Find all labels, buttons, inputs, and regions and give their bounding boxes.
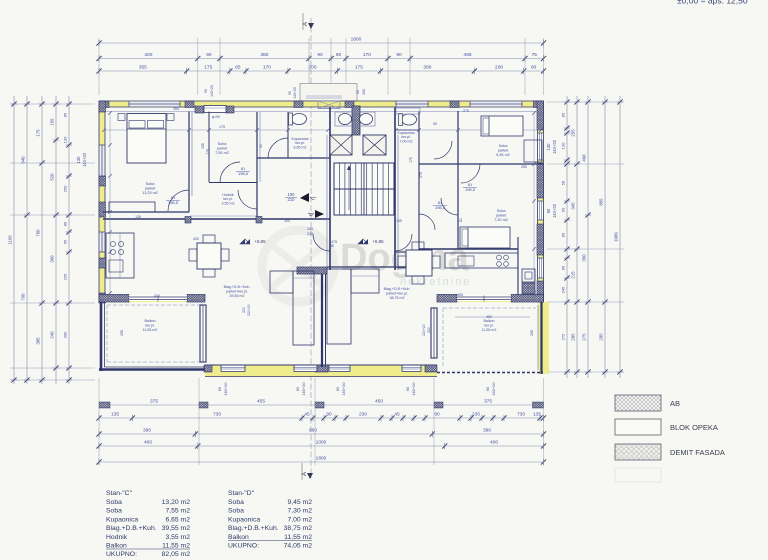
svg-text:Soba: Soba xyxy=(499,144,509,148)
svg-text:198,5: 198,5 xyxy=(465,187,476,192)
bottom wall yellow band xyxy=(205,365,437,377)
svg-text:UKUPNO:: UKUPNO: xyxy=(106,551,137,558)
svg-text:7,30 m2: 7,30 m2 xyxy=(494,218,508,222)
stairwell right wall xyxy=(394,108,396,271)
svg-text:Soba: Soba xyxy=(497,209,507,213)
svg-text:360: 360 xyxy=(50,255,55,263)
svg-text:730: 730 xyxy=(517,412,525,418)
wall C2 right xyxy=(256,112,258,223)
balcony sliding doors top walls xyxy=(129,295,187,301)
svg-text:"C": "C" xyxy=(310,196,317,201)
left wall windows xyxy=(100,145,105,176)
left wall edge lines xyxy=(98,101,100,303)
bottom dimension row1 with wall marks xyxy=(99,404,544,406)
svg-text:+5,95: +5,95 xyxy=(372,239,384,244)
door arc D bed2 xyxy=(441,198,458,215)
right dimension lines xyxy=(566,96,568,378)
wall D bath bottom xyxy=(395,129,419,131)
svg-text:215: 215 xyxy=(571,271,576,279)
svg-text:135: 135 xyxy=(533,412,541,418)
svg-text:160+20: 160+20 xyxy=(491,382,496,396)
svg-text:90: 90 xyxy=(317,52,323,58)
svg-text:475: 475 xyxy=(331,240,337,244)
interior dim chain horizontal C xyxy=(104,129,328,131)
wall D bed2 bottom xyxy=(419,248,518,250)
svg-text:295: 295 xyxy=(530,330,534,336)
balcony right parapet xyxy=(540,302,542,374)
wall bedroomC right xyxy=(188,112,190,213)
svg-text:135: 135 xyxy=(111,412,119,418)
svg-text:175: 175 xyxy=(36,129,41,137)
entry door D xyxy=(395,234,412,251)
window bay room C2 xyxy=(204,106,226,113)
svg-text:790: 790 xyxy=(21,293,26,301)
svg-text:275: 275 xyxy=(206,149,210,155)
svg-text:81: 81 xyxy=(459,218,463,222)
svg-text:1800: 1800 xyxy=(316,456,327,462)
wall C separator xyxy=(103,218,330,220)
bed D2 xyxy=(460,227,510,248)
svg-text:ker.pl.: ker.pl. xyxy=(145,323,155,327)
apartment D marker xyxy=(315,210,324,218)
svg-text:200: 200 xyxy=(309,65,317,71)
svg-text:Kupaonica: Kupaonica xyxy=(228,516,260,523)
svg-text:90: 90 xyxy=(259,144,263,148)
left dimension lines xyxy=(13,96,15,384)
svg-text:90: 90 xyxy=(288,91,292,95)
svg-text:39,55 m2: 39,55 m2 xyxy=(230,294,245,298)
svg-text:210: 210 xyxy=(307,232,313,236)
wall D corridor right xyxy=(418,112,420,253)
vent shaft left with X xyxy=(330,135,352,155)
svg-text:7,55 m2: 7,55 m2 xyxy=(165,508,190,515)
sofa D xyxy=(327,269,351,344)
svg-text:Balkon: Balkon xyxy=(228,534,249,541)
svg-text:220+20: 220+20 xyxy=(247,304,251,316)
svg-text:220: 220 xyxy=(427,327,431,333)
svg-text:Blag.+D.B.+Kuh.: Blag.+D.B.+Kuh. xyxy=(106,525,157,532)
toilet D xyxy=(402,114,417,125)
svg-text:90: 90 xyxy=(561,207,566,212)
dark pier between twin sinks xyxy=(352,106,360,135)
svg-text:170: 170 xyxy=(363,52,371,58)
svg-text:90: 90 xyxy=(546,208,551,213)
balcony top walls yellow xyxy=(99,295,205,302)
bottom dimension row4 xyxy=(99,445,544,447)
bottom extension lines xyxy=(98,378,100,465)
right wall edge lines xyxy=(543,101,545,302)
svg-text:100: 100 xyxy=(307,227,313,231)
balcony right inner dashes xyxy=(443,307,536,309)
svg-text:285: 285 xyxy=(599,333,604,341)
svg-text:160+20: 160+20 xyxy=(301,382,306,396)
svg-text:11,55 m2: 11,55 m2 xyxy=(284,534,312,541)
svg-text:Soba: Soba xyxy=(218,142,228,146)
svg-text:UKUPNO:: UKUPNO: xyxy=(228,543,259,550)
bottom dimension row2 xyxy=(99,417,544,419)
svg-text:75: 75 xyxy=(532,52,538,58)
door arc C bath xyxy=(268,138,288,158)
svg-text:230: 230 xyxy=(472,412,480,418)
stairwell bottom hatched wall xyxy=(297,267,327,274)
svg-text:410: 410 xyxy=(154,294,160,298)
svg-text:160+20: 160+20 xyxy=(411,382,416,396)
svg-text:ker.pl.: ker.pl. xyxy=(484,323,494,327)
svg-text:175: 175 xyxy=(409,157,413,163)
wall D corridor bottom xyxy=(395,251,419,253)
wall D bed1 bottom xyxy=(419,163,543,165)
stairwell left wall xyxy=(329,108,331,271)
top wall windows xyxy=(129,102,180,107)
bottom dimension row3 xyxy=(99,433,544,435)
svg-text:160+20: 160+20 xyxy=(341,382,346,396)
svg-text:parket: parket xyxy=(498,149,509,153)
svg-text:38,75 m2: 38,75 m2 xyxy=(390,296,405,300)
svg-text:80: 80 xyxy=(531,65,537,71)
svg-text:450: 450 xyxy=(457,293,463,297)
svg-text:400: 400 xyxy=(490,440,498,446)
svg-text:840: 840 xyxy=(21,156,26,164)
svg-text:±0,00 = aps. 12,50: ±0,00 = aps. 12,50 xyxy=(677,0,748,6)
toilet C xyxy=(292,114,307,125)
svg-text:100: 100 xyxy=(284,219,290,223)
svg-text:455: 455 xyxy=(257,399,265,405)
svg-text:960: 960 xyxy=(309,428,317,434)
svg-text:175: 175 xyxy=(204,65,212,71)
entry door C xyxy=(313,234,330,251)
svg-text:1196: 1196 xyxy=(8,235,13,245)
svg-text:9,45 m2: 9,45 m2 xyxy=(287,499,312,506)
svg-text:175: 175 xyxy=(419,172,423,178)
faint extra legend box xyxy=(615,468,661,482)
svg-text:90: 90 xyxy=(204,89,208,93)
svg-text:Soba: Soba xyxy=(228,499,244,506)
wall C bath bottom xyxy=(257,157,330,159)
kitchen D counter xyxy=(445,253,518,268)
svg-text:465: 465 xyxy=(464,52,472,58)
wall D kitchen east xyxy=(517,237,519,295)
svg-text:45: 45 xyxy=(330,244,334,248)
bottom dimension row5 1800 xyxy=(99,461,544,463)
svg-text:13,25 m2: 13,25 m2 xyxy=(142,191,158,195)
svg-text:80: 80 xyxy=(561,232,566,237)
svg-text:"D": "D" xyxy=(308,212,315,217)
right extension lines xyxy=(547,101,624,103)
bottom wall piers xyxy=(204,365,212,372)
section line A-A xyxy=(310,18,312,478)
svg-text:7,00 m2: 7,00 m2 xyxy=(287,516,312,523)
svg-text:400: 400 xyxy=(144,52,152,58)
svg-text:Stan-"D": Stan-"D" xyxy=(228,490,255,497)
svg-text:520: 520 xyxy=(50,173,55,181)
bed C1 xyxy=(127,114,166,164)
outer wall left yellow band xyxy=(99,101,105,303)
balcony right dim line xyxy=(455,316,530,318)
svg-text:198,5: 198,5 xyxy=(238,171,249,176)
svg-text:φ=90: φ=90 xyxy=(212,115,220,119)
svg-text:275: 275 xyxy=(582,333,587,341)
door arc C2 xyxy=(220,162,240,182)
svg-text:360: 360 xyxy=(260,52,268,58)
interior dim chain vertical D xyxy=(533,113,535,293)
svg-text:9,45 m2: 9,45 m2 xyxy=(496,153,510,157)
svg-text:Blag.+D.B.+Kuh.: Blag.+D.B.+Kuh. xyxy=(228,525,279,532)
svg-text:45: 45 xyxy=(394,412,400,418)
svg-text:245: 245 xyxy=(201,143,205,149)
svg-text:parket+ker.pl.: parket+ker.pl. xyxy=(226,289,248,293)
svg-text:135: 135 xyxy=(135,215,141,219)
svg-text:345: 345 xyxy=(571,202,576,210)
interior dim chain vertical C xyxy=(110,112,293,114)
svg-text:230: 230 xyxy=(359,412,367,418)
svg-text:140+20: 140+20 xyxy=(293,87,297,99)
legend box DEMIT FASADA xyxy=(615,444,661,460)
wall C2 left xyxy=(208,112,210,183)
svg-text:385: 385 xyxy=(36,337,41,345)
svg-text:Soba: Soba xyxy=(106,499,122,506)
svg-text:130: 130 xyxy=(63,136,68,143)
svg-text:140+20: 140+20 xyxy=(82,152,87,167)
svg-text:198,5: 198,5 xyxy=(168,200,179,205)
center party wall xyxy=(321,274,323,367)
pier D kitchen corner xyxy=(522,283,535,294)
svg-text:11,55 m2: 11,55 m2 xyxy=(482,328,497,332)
svg-text:130: 130 xyxy=(561,142,566,149)
svg-text:95: 95 xyxy=(63,239,68,244)
bed D1 xyxy=(481,116,523,136)
top wall inner leaf line xyxy=(104,111,544,113)
svg-text:285: 285 xyxy=(571,333,576,341)
svg-text:11,55 m2: 11,55 m2 xyxy=(162,543,190,550)
wall D rooms left xyxy=(457,111,459,249)
dining table C xyxy=(197,243,221,269)
wardrobe D room top xyxy=(524,140,542,162)
svg-text:345: 345 xyxy=(561,286,566,293)
legend box AB xyxy=(615,395,661,411)
svg-text:100: 100 xyxy=(362,89,366,95)
right balcony outer yellow band xyxy=(539,302,550,374)
kitchen D sink xyxy=(458,256,474,266)
top wall piers xyxy=(99,101,109,108)
svg-text:355: 355 xyxy=(139,65,147,71)
svg-text:AB: AB xyxy=(670,399,680,408)
window bay piers room C2 xyxy=(195,106,204,113)
vent shaft right with X xyxy=(363,135,386,155)
door arc D bath xyxy=(434,141,452,159)
top extension lines xyxy=(98,38,100,95)
level mark C +5,95 xyxy=(240,239,250,244)
svg-text:275: 275 xyxy=(463,109,469,113)
svg-text:390: 390 xyxy=(143,428,151,434)
svg-text:13,20 m2: 13,20 m2 xyxy=(162,499,191,506)
svg-text:Soba: Soba xyxy=(106,508,122,515)
svg-text:220+20: 220+20 xyxy=(422,324,426,336)
door arc D bed1 xyxy=(461,164,480,183)
top dimension line row2 xyxy=(99,58,544,60)
svg-text:parket: parket xyxy=(217,147,228,151)
twin sinks center xyxy=(335,112,375,126)
svg-text:250: 250 xyxy=(63,185,68,192)
level mark D +5,95 xyxy=(358,239,368,244)
svg-text:74,05 m2: 74,05 m2 xyxy=(284,543,313,550)
svg-text:65: 65 xyxy=(235,65,241,71)
svg-text:3,55 m2: 3,55 m2 xyxy=(222,201,235,205)
svg-text:175: 175 xyxy=(219,125,225,129)
svg-text:375: 375 xyxy=(484,399,492,405)
wall C bath left xyxy=(287,112,289,158)
svg-text:7,00 m2: 7,00 m2 xyxy=(400,139,413,143)
svg-text:380: 380 xyxy=(423,65,431,71)
svg-text:140+20: 140+20 xyxy=(210,85,214,97)
svg-text:390: 390 xyxy=(483,428,491,434)
svg-text:235: 235 xyxy=(63,273,68,280)
svg-text:80: 80 xyxy=(63,221,68,226)
left extension lines xyxy=(10,103,95,105)
balcony left parapet xyxy=(100,302,103,371)
sofa C xyxy=(293,271,314,345)
svg-text:1086: 1086 xyxy=(614,232,619,242)
balcony top wall piers xyxy=(99,295,129,303)
svg-text:375: 375 xyxy=(150,399,158,405)
staircase xyxy=(334,163,394,215)
outer wall top yellow band xyxy=(99,101,544,107)
nightstands bed C1 xyxy=(118,114,125,121)
svg-text:198,5: 198,5 xyxy=(435,205,446,210)
svg-text:Blag.+D.B.+Kuh.: Blag.+D.B.+Kuh. xyxy=(224,285,251,289)
door arc C hodnik east xyxy=(238,190,257,209)
svg-text:295: 295 xyxy=(120,330,124,336)
svg-text:60: 60 xyxy=(336,52,342,58)
fridge D xyxy=(522,269,535,282)
svg-text:38,75 m2: 38,75 m2 xyxy=(284,525,313,532)
balcony right door panel xyxy=(431,308,437,358)
svg-text:90: 90 xyxy=(433,122,437,126)
svg-text:A: A xyxy=(303,22,309,26)
svg-text:45: 45 xyxy=(304,412,310,418)
svg-text:parket: parket xyxy=(145,187,156,191)
top dimension line row3 xyxy=(99,70,544,72)
svg-text:60: 60 xyxy=(356,90,360,94)
interior dim chain horizontal D xyxy=(396,129,541,131)
svg-text:58: 58 xyxy=(561,180,566,185)
svg-text:1800: 1800 xyxy=(351,37,362,43)
kitchen D hob xyxy=(497,255,502,260)
top wall edge lines xyxy=(99,100,544,102)
svg-text:3,55 m2: 3,55 m2 xyxy=(165,534,190,541)
legend box BLOK OPEKA xyxy=(615,419,661,435)
wall C2 bottom / hodnik top xyxy=(209,182,257,184)
svg-text:parket: parket xyxy=(496,214,507,218)
svg-text:parket+ker.pl.: parket+ker.pl. xyxy=(386,291,408,295)
svg-text:Balkon: Balkon xyxy=(106,543,127,550)
svg-text:85: 85 xyxy=(561,112,566,117)
svg-text:Blag.+D.B.+Kuh.: Blag.+D.B.+Kuh. xyxy=(384,287,411,291)
kitchen C sink xyxy=(109,260,123,272)
svg-text:135: 135 xyxy=(396,219,402,223)
stair arrow xyxy=(348,168,350,210)
svg-text:6,65 m2: 6,65 m2 xyxy=(294,145,307,149)
right wall piers xyxy=(537,101,544,130)
balcony left door panel xyxy=(200,305,206,362)
outer wall right yellow band xyxy=(538,101,544,302)
svg-text:130: 130 xyxy=(76,156,81,164)
svg-text:200: 200 xyxy=(495,65,503,71)
svg-text:450: 450 xyxy=(486,315,492,319)
stair bulkhead box above top wall xyxy=(300,84,357,102)
kitchen C counter xyxy=(106,233,134,278)
bottom wall edge lines xyxy=(205,364,437,366)
dining table D xyxy=(406,250,432,276)
door arc D corridor xyxy=(419,214,435,230)
svg-text:210: 210 xyxy=(288,197,296,202)
svg-text:90: 90 xyxy=(434,412,440,418)
svg-text:7,30 m2: 7,30 m2 xyxy=(287,508,312,515)
svg-text:A: A xyxy=(302,472,308,476)
svg-text:Soba: Soba xyxy=(146,182,156,186)
svg-text:450: 450 xyxy=(375,399,383,405)
svg-text:90: 90 xyxy=(206,52,212,58)
svg-text:7,55 m2: 7,55 m2 xyxy=(215,151,229,155)
svg-text:Hodnik: Hodnik xyxy=(106,534,128,541)
svg-text:+5,95: +5,95 xyxy=(254,239,266,244)
svg-text:1000: 1000 xyxy=(316,440,327,446)
watermark logo circle xyxy=(262,230,334,302)
svg-text:DEMIT FASADA: DEMIT FASADA xyxy=(670,448,725,457)
svg-text:BLOK OPEKA: BLOK OPEKA xyxy=(670,423,718,432)
svg-text:Balkon: Balkon xyxy=(484,319,495,323)
svg-text:85: 85 xyxy=(63,112,68,117)
balcony left inner dashes xyxy=(107,304,200,306)
svg-text:90: 90 xyxy=(326,412,332,418)
svg-text:140+20: 140+20 xyxy=(552,203,557,218)
svg-text:420: 420 xyxy=(193,237,199,241)
dresser bedroom C1 xyxy=(109,202,155,212)
svg-text:240: 240 xyxy=(50,331,55,339)
svg-text:730: 730 xyxy=(213,412,221,418)
svg-text:86: 86 xyxy=(561,265,566,270)
svg-text:11,55 m2: 11,55 m2 xyxy=(143,328,158,332)
left wall piers xyxy=(99,101,106,112)
washbasin D bath xyxy=(396,108,420,114)
svg-text:790: 790 xyxy=(36,229,41,237)
svg-text:350: 350 xyxy=(582,254,587,262)
door arc C bedroom1 xyxy=(168,190,189,211)
right wall windows xyxy=(538,133,543,160)
svg-text:160+20: 160+20 xyxy=(223,382,228,396)
light shaft wall block in top band xyxy=(318,101,340,109)
svg-text:255: 255 xyxy=(571,129,576,137)
svg-text:400: 400 xyxy=(144,440,152,446)
svg-text:90: 90 xyxy=(396,52,402,58)
svg-text:220: 220 xyxy=(242,307,246,313)
svg-text:140+20: 140+20 xyxy=(552,139,557,154)
svg-text:Kupaonica: Kupaonica xyxy=(106,516,138,523)
svg-text:Balkon: Balkon xyxy=(145,319,156,323)
svg-text:Stan-"C": Stan-"C" xyxy=(106,490,133,497)
svg-text:175: 175 xyxy=(355,65,363,71)
kitchen C hob circles xyxy=(110,241,115,246)
svg-text:82,05 m2: 82,05 m2 xyxy=(162,551,191,558)
apartment C marker xyxy=(300,193,309,202)
svg-text:460: 460 xyxy=(582,154,587,162)
svg-text:nekretnine: nekretnine xyxy=(400,276,471,288)
svg-text:6,65 m2: 6,65 m2 xyxy=(165,516,190,523)
svg-text:159: 159 xyxy=(50,118,55,126)
wall bedroomC bottom xyxy=(103,211,189,213)
svg-text:300: 300 xyxy=(63,331,68,338)
svg-text:130: 130 xyxy=(546,143,551,151)
svg-text:255: 255 xyxy=(521,165,527,169)
